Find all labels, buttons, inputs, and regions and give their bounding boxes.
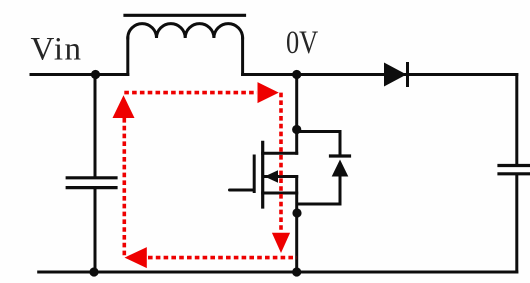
svg-text:Vin: Vin — [31, 31, 83, 67]
svg-text:0V: 0V — [286, 24, 319, 60]
